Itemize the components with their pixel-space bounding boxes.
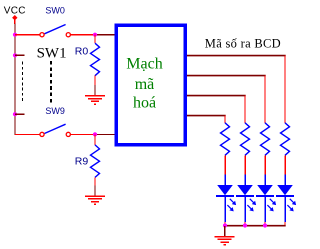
switch SW9: [40, 124, 70, 136]
svg-text:SW9: SW9: [45, 106, 65, 116]
wire output bit1 horizontal: [187, 95, 246, 97]
ground below LED bus: [215, 226, 235, 245]
junction node bus/LED1: [223, 223, 227, 227]
wire resistor2 to LED2: [244, 155, 246, 174]
wire resistor3 to LED3: [264, 155, 266, 174]
wire output bit1 vertical: [244, 96, 246, 123]
wire: rail corner to SW9: [15, 133, 40, 135]
junction node bus/LED3: [263, 223, 267, 227]
power symbol VCC diamond: [12, 15, 17, 24]
wire node to encoder box (row0): [95, 34, 115, 36]
wire R0 to ground: [94, 76, 96, 85]
wire rail to SW0: [15, 34, 40, 36]
wire stub SW1 row: [15, 54, 25, 56]
wire output bit0 horizontal: [187, 115, 226, 117]
svg-text:R9: R9: [75, 155, 89, 167]
LED D4: [276, 175, 296, 223]
svg-text:hoá: hoá: [133, 94, 156, 111]
resistor column3: [261, 123, 270, 156]
svg-text:Mạch: Mạch: [126, 55, 162, 72]
wire LED1 to bus: [224, 222, 226, 226]
wire resistor1 to LED1: [224, 155, 226, 174]
svg-text:SW0: SW0: [45, 6, 65, 16]
ellipsis dashed wire (omitted switches): [22, 62, 24, 102]
resistor R0: [91, 43, 100, 75]
wire LED2 to bus: [244, 222, 246, 226]
junction node at rail/stub1: [13, 53, 17, 57]
wire output bit3 horizontal: [187, 55, 286, 57]
op block U1 encoder box: [116, 25, 185, 145]
svg-text:SW1: SW1: [37, 46, 67, 62]
svg-text:VCC: VCC: [4, 5, 26, 16]
LED D3: [256, 175, 276, 223]
wire node to encoder box (row9): [95, 133, 115, 135]
wire LED3 to bus: [264, 222, 266, 226]
switch SW0: [40, 25, 70, 37]
LED D2: [236, 175, 256, 223]
wire output bit3 vertical: [284, 55, 286, 122]
wire output bit2 vertical: [264, 76, 266, 123]
svg-text:R0: R0: [75, 45, 89, 57]
resistor column1: [221, 123, 230, 156]
wire resistor4 to LED4: [284, 155, 286, 174]
wire node to R9: [94, 134, 96, 145]
wire R9 to ground: [94, 177, 96, 185]
wire stub SW8 row: [15, 113, 25, 115]
wire: left power rail vertical: [14, 24, 16, 136]
wire node to R0: [94, 35, 96, 44]
resistor R9: [91, 145, 100, 178]
ellipsis thick dashed (between SW1 and SW9 labels): [50, 61, 52, 103]
wire output bit0 vertical: [224, 116, 226, 123]
resistor column2: [241, 123, 250, 156]
junction node bus/LED2: [243, 223, 247, 227]
LED D1: [216, 175, 236, 223]
wire cathode bus: [225, 225, 286, 227]
wire output bit2 horizontal: [187, 75, 266, 77]
wire LED4 to bus: [284, 222, 286, 226]
junction node at rail/stub2: [13, 112, 17, 116]
wire SW9 to node: [71, 133, 96, 135]
resistor column4: [281, 123, 290, 156]
svg-text:mã: mã: [135, 76, 155, 93]
wire SW0 to node: [71, 34, 96, 36]
junction node SW9/R9: [93, 132, 97, 136]
junction node SW0/R0: [93, 33, 97, 37]
junction node at rail/SW0: [13, 33, 17, 37]
ground below R0: [85, 85, 105, 104]
ground below R9: [85, 185, 105, 204]
svg-text:Mã số ra BCD: Mã số ra BCD: [205, 37, 281, 51]
